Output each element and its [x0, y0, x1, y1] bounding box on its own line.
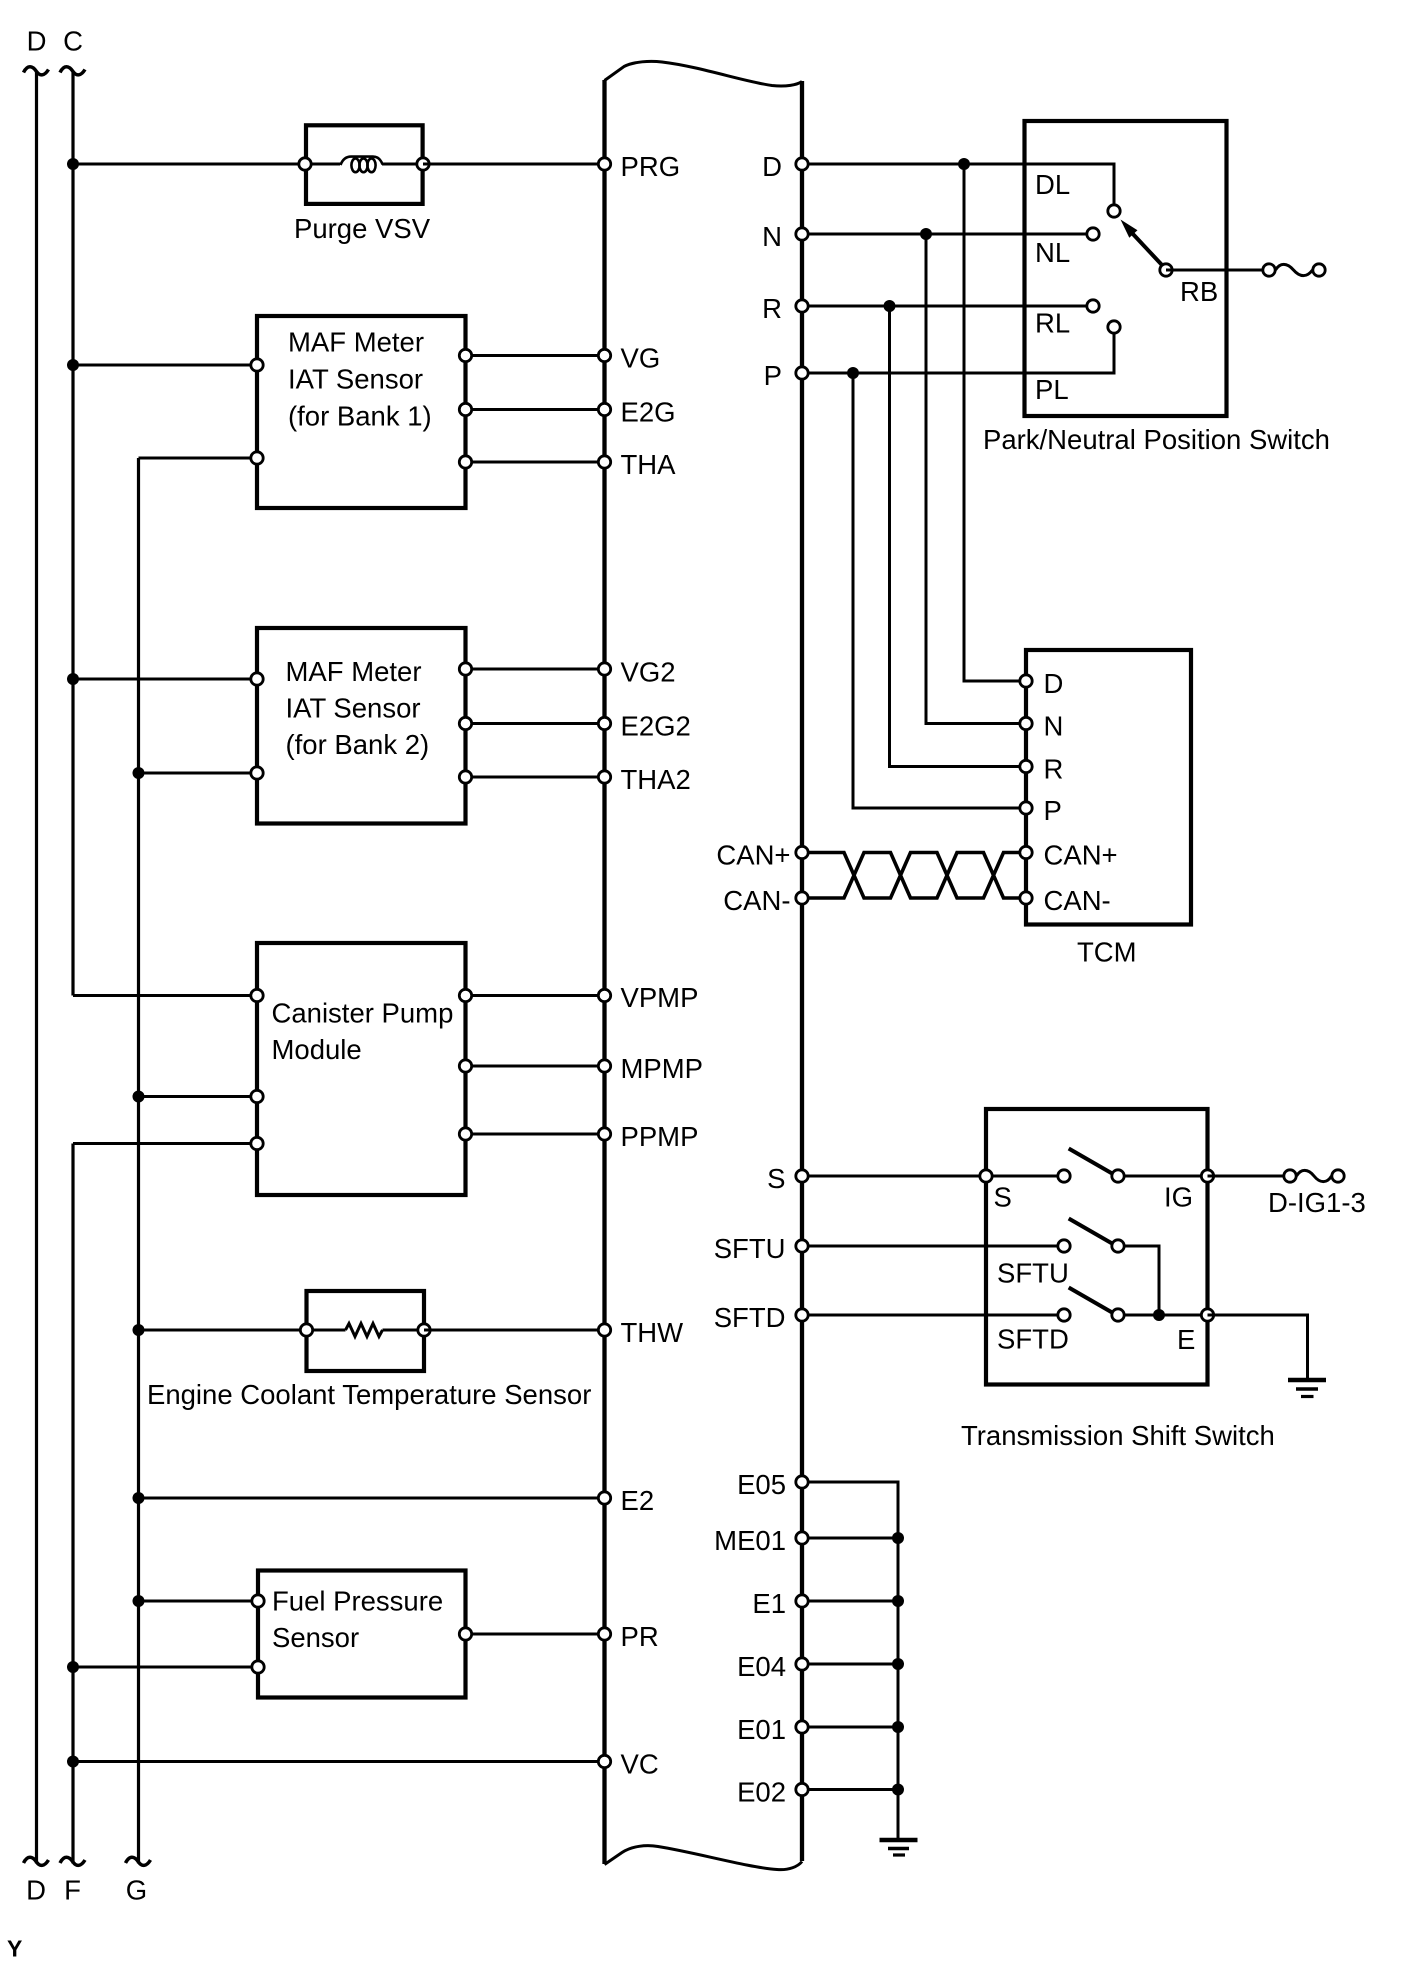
- pin D: [762, 151, 808, 182]
- junction E04: [892, 1658, 904, 1670]
- wire coolant sensor to THW: [424, 1329, 605, 1332]
- TCM pin D: [1020, 668, 1064, 699]
- svg-text:S: S: [767, 1163, 785, 1194]
- TSS SFTD switch contacts and blade: [997, 1288, 1124, 1355]
- connector RB circle-wave-circle: [1263, 264, 1325, 276]
- coolant temperature sensor box: [307, 1291, 425, 1371]
- junction on P wire: [847, 367, 859, 379]
- TCM pin R: [1020, 754, 1064, 785]
- pin N: [762, 221, 808, 252]
- TCM pin P: [1020, 795, 1062, 826]
- pin E1: [752, 1588, 808, 1619]
- wire F to VC: [73, 1760, 605, 1763]
- svg-text:CAN+: CAN+: [716, 840, 790, 871]
- wire N drop to TCM: [926, 234, 1026, 724]
- svg-text:ME01: ME01: [714, 1525, 786, 1556]
- wire G to MAF2: [139, 772, 258, 775]
- MAF meter 1 box: [257, 316, 466, 508]
- MAF1 right terminals: [459, 349, 471, 468]
- junction ME01: [892, 1532, 904, 1544]
- pin R: [762, 293, 808, 324]
- svg-text:Engine Coolant Temperature Sen: Engine Coolant Temperature Sensor: [147, 1379, 591, 1410]
- junction on F at VC wire: [67, 1756, 79, 1768]
- coolant sensor label: [147, 1379, 591, 1410]
- transmission shift switch label: [961, 1420, 1275, 1451]
- svg-text:S: S: [994, 1182, 1012, 1213]
- net F left rail: [60, 1144, 85, 1906]
- svg-text:SFTU: SFTU: [997, 1258, 1069, 1289]
- MAF meter 2 box: [257, 628, 466, 824]
- wire G to coolant sensor: [139, 1329, 307, 1332]
- pin PRG: [598, 151, 680, 182]
- wire IG to connector D-IG1-3: [1208, 1175, 1284, 1178]
- svg-text:Purge VSV: Purge VSV: [294, 213, 431, 244]
- svg-text:Module: Module: [272, 1034, 362, 1065]
- TSS terminal IG: [1164, 1170, 1214, 1213]
- junction on G at E2 wire: [133, 1492, 145, 1504]
- wire MAF2 E2G2: [466, 722, 605, 725]
- wire E02 to ground rail: [802, 1788, 898, 1791]
- svg-text:RL: RL: [1035, 308, 1070, 339]
- svg-text:N: N: [762, 221, 782, 252]
- pin PPMP: [598, 1121, 698, 1152]
- MAF2 right terminals: [459, 663, 471, 783]
- junction on G at canister wire: [133, 1091, 145, 1103]
- wire E04 to ground rail: [802, 1663, 898, 1666]
- svg-text:N: N: [1044, 711, 1064, 742]
- junction SFTU to E: [1153, 1309, 1165, 1321]
- wire E1 to ground rail: [802, 1600, 898, 1603]
- connector D-IG1-3 circle-wave-circle: [1268, 1170, 1366, 1218]
- svg-text:VPMP: VPMP: [621, 982, 699, 1013]
- svg-text:D: D: [27, 26, 47, 57]
- ground at shift switch: [1288, 1380, 1326, 1397]
- node Y page label: [7, 1936, 22, 1961]
- svg-text:PRG: PRG: [621, 151, 681, 182]
- TSS terminal E: [1177, 1309, 1214, 1355]
- pin E04: [737, 1651, 808, 1682]
- wire MAF1 THA: [466, 461, 605, 464]
- svg-text:E2: E2: [621, 1485, 655, 1516]
- FPS right terminal: [459, 1628, 471, 1640]
- junction on C at MAF1 wire: [67, 359, 79, 371]
- junction on G at THW wire: [133, 1324, 145, 1336]
- junction on G at MAF2 wire: [133, 767, 145, 779]
- wire SFTD pin to shift switch: [802, 1314, 986, 1317]
- pin MPMP: [598, 1053, 703, 1084]
- canister right terminals: [459, 989, 471, 1140]
- wire C to MAF2: [73, 678, 257, 681]
- TCM label: [1077, 937, 1137, 968]
- wire MAF1 E2G: [466, 408, 605, 411]
- MAF2 left terminals: [251, 673, 263, 779]
- wire F to fuel pressure sensor: [73, 1666, 258, 1669]
- TSS SFTU switch contacts and blade: [997, 1219, 1124, 1289]
- wire D drop to TCM: [964, 164, 1026, 681]
- junction E02: [892, 1784, 904, 1796]
- svg-text:Fuel Pressure: Fuel Pressure: [272, 1586, 443, 1617]
- wire purge VSV to PRG: [423, 163, 605, 166]
- net G left rail: [126, 458, 151, 1906]
- wire F to canister lower terminal: [73, 1142, 257, 1145]
- pin VG: [598, 343, 660, 374]
- svg-text:E05: E05: [737, 1469, 786, 1500]
- ECM bus torn top edge: [605, 61, 803, 86]
- net C left rail: [60, 26, 85, 996]
- svg-text:E2G2: E2G2: [621, 711, 691, 742]
- PNP PL contact: [1035, 321, 1120, 405]
- svg-text:SFTD: SFTD: [714, 1302, 786, 1333]
- coolant sensor right terminal: [418, 1324, 430, 1336]
- pin ME01: [714, 1525, 808, 1556]
- svg-text:MAF Meter: MAF Meter: [286, 656, 422, 687]
- svg-text:RB: RB: [1180, 276, 1218, 307]
- wire FPS to PR: [466, 1633, 605, 1636]
- purge VSV coil: [311, 157, 417, 173]
- pin E05: [737, 1469, 808, 1500]
- svg-text:VC: VC: [621, 1749, 659, 1780]
- svg-text:PR: PR: [621, 1621, 659, 1652]
- svg-text:E04: E04: [737, 1651, 786, 1682]
- wire N pin to PNP NL contact: [802, 233, 1087, 236]
- wire D pin to PNP DL contact: [802, 164, 1114, 205]
- svg-text:DL: DL: [1035, 169, 1070, 200]
- pin S: [767, 1163, 808, 1194]
- svg-text:PPMP: PPMP: [621, 1121, 699, 1152]
- PNP DL contact: [1035, 169, 1120, 217]
- TSS SFTU row wires: [986, 1246, 1159, 1315]
- svg-text:CAN-: CAN-: [723, 885, 790, 916]
- net D left rail: [24, 26, 49, 1906]
- svg-text:NL: NL: [1035, 237, 1070, 268]
- svg-text:Y: Y: [7, 1936, 22, 1961]
- junction E01: [892, 1721, 904, 1733]
- junction on D wire: [958, 158, 970, 170]
- transmission shift switch box: [986, 1109, 1208, 1385]
- TSS S switch contacts and blade: [1058, 1149, 1124, 1183]
- svg-text:E1: E1: [752, 1588, 786, 1619]
- MAF1 left terminals: [251, 359, 263, 464]
- svg-text:G: G: [126, 1875, 147, 1906]
- pin E2G2: [598, 711, 691, 742]
- junction on F at FPS wire: [67, 1661, 79, 1673]
- svg-text:(for Bank 2): (for Bank 2): [286, 729, 430, 760]
- svg-text:E: E: [1177, 1324, 1195, 1355]
- wire G to canister middle terminal: [139, 1095, 258, 1098]
- junction on R wire: [884, 300, 896, 312]
- pin THA: [598, 449, 676, 480]
- svg-text:Park/Neutral Position Switch: Park/Neutral Position Switch: [983, 424, 1330, 455]
- svg-text:D: D: [26, 1875, 46, 1906]
- svg-text:D: D: [762, 151, 782, 182]
- svg-text:THA2: THA2: [621, 764, 691, 795]
- resistor element THW: [312, 1324, 418, 1337]
- pin CAN-: [723, 885, 808, 916]
- svg-text:MAF Meter: MAF Meter: [288, 327, 424, 358]
- svg-text:(for Bank 1): (for Bank 1): [288, 401, 432, 432]
- wire canister MPMP: [466, 1065, 605, 1068]
- junction on N wire: [920, 228, 932, 240]
- svg-text:IAT Sensor: IAT Sensor: [288, 364, 423, 395]
- svg-text:E01: E01: [737, 1714, 786, 1745]
- svg-text:R: R: [762, 293, 782, 324]
- fuel pressure sensor box: [258, 1571, 466, 1698]
- svg-text:VG: VG: [621, 343, 661, 374]
- svg-text:Sensor: Sensor: [272, 1622, 359, 1653]
- pin E02: [737, 1777, 808, 1808]
- svg-text:R: R: [1044, 754, 1064, 785]
- svg-text:VG2: VG2: [621, 657, 676, 688]
- pin E01: [737, 1714, 808, 1745]
- svg-text:D-IG1-3: D-IG1-3: [1268, 1187, 1366, 1218]
- wire R pin to PNP RL contact: [802, 305, 1087, 308]
- svg-text:MPMP: MPMP: [621, 1053, 704, 1084]
- wire MAF1 to net G: [139, 457, 258, 460]
- junction on C at PRG wire: [67, 158, 79, 170]
- svg-text:IAT Sensor: IAT Sensor: [286, 693, 421, 724]
- purge VSV label: [294, 213, 431, 244]
- wire C to Purge VSV: [73, 163, 305, 166]
- wire MAF2 VG2: [466, 668, 605, 671]
- coolant sensor left terminal: [300, 1324, 312, 1336]
- TCM pin CAN+: [1020, 840, 1118, 871]
- park/neutral position switch box: [1025, 121, 1227, 416]
- PNP RL contact: [1035, 300, 1099, 339]
- svg-text:P: P: [1044, 795, 1062, 826]
- wire E01 to ground rail: [802, 1726, 898, 1729]
- TSS SFTD row wires: [986, 1314, 1208, 1317]
- svg-text:THA: THA: [621, 449, 677, 480]
- pin THA2: [598, 764, 690, 795]
- svg-text:Transmission Shift Switch: Transmission Shift Switch: [961, 1420, 1275, 1451]
- twisted pair CAN wires: [808, 853, 1020, 899]
- park/neutral position switch label: [983, 424, 1330, 455]
- ground at E rail: [880, 1840, 918, 1855]
- wire P pin to PNP PL contact: [802, 333, 1114, 373]
- wire R drop to TCM: [890, 306, 1027, 767]
- svg-text:SFTU: SFTU: [714, 1233, 786, 1264]
- pin VPMP: [598, 982, 698, 1013]
- pin VG2: [598, 657, 675, 688]
- pin VC: [598, 1749, 658, 1780]
- PNP NL contact: [1035, 228, 1099, 268]
- TCM box: [1026, 650, 1191, 925]
- purge VSV left terminal: [299, 158, 311, 170]
- ECM bus torn bottom edge: [605, 1846, 803, 1870]
- svg-text:TCM: TCM: [1077, 937, 1137, 968]
- svg-text:E02: E02: [737, 1777, 786, 1808]
- purge VSV right terminal: [417, 158, 429, 170]
- svg-text:P: P: [764, 360, 782, 391]
- wire P drop to TCM: [853, 373, 1026, 808]
- svg-text:IG: IG: [1164, 1182, 1193, 1213]
- junction on C at MAF2 wire: [67, 673, 79, 685]
- svg-text:CAN+: CAN+: [1044, 840, 1118, 871]
- wire C to MAF1: [73, 364, 257, 367]
- TSS terminal S: [980, 1170, 1012, 1213]
- wire SFTU pin to shift switch: [802, 1245, 986, 1248]
- ECM bus left edge: [602, 80, 606, 1864]
- pin CAN+: [716, 840, 808, 871]
- svg-text:PL: PL: [1035, 374, 1069, 405]
- wire canister VPMP: [466, 994, 605, 997]
- wire MAF1 VG: [466, 354, 605, 357]
- PNP switch arm RB: [1121, 220, 1219, 308]
- pin SFTD: [714, 1302, 809, 1333]
- wire G to fuel pressure sensor: [139, 1600, 259, 1603]
- svg-text:D: D: [1044, 668, 1064, 699]
- svg-text:F: F: [64, 1875, 81, 1906]
- wire G to E2: [139, 1497, 605, 1500]
- wire ME01 to ground rail: [802, 1537, 898, 1540]
- wire C to canister VPMP terminal: [73, 994, 257, 997]
- TSS S row wires: [986, 1175, 1208, 1178]
- junction on G at FPS wire: [133, 1595, 145, 1607]
- wire E to ground: [1208, 1315, 1308, 1380]
- svg-text:C: C: [63, 26, 83, 57]
- wire MAF2 THA2: [466, 776, 605, 779]
- wire S pin to shift switch: [802, 1175, 986, 1178]
- TCM pin CAN-: [1020, 885, 1111, 916]
- pin E2: [598, 1485, 654, 1516]
- FPS left terminals: [252, 1595, 264, 1673]
- svg-text:CAN-: CAN-: [1044, 885, 1111, 916]
- svg-text:SFTD: SFTD: [997, 1324, 1069, 1355]
- wire RB to connector: [1166, 269, 1263, 272]
- TCM pin N: [1020, 711, 1064, 742]
- junction E1: [892, 1595, 904, 1607]
- svg-text:THW: THW: [621, 1317, 684, 1348]
- wire canister PPMP: [466, 1133, 605, 1136]
- canister left terminals: [251, 989, 263, 1149]
- pin PR: [598, 1621, 658, 1652]
- pin P: [764, 360, 809, 391]
- ECM bus right edge: [800, 81, 804, 1861]
- canister pump module box: [257, 943, 466, 1195]
- pin SFTU: [714, 1233, 809, 1264]
- pin THW: [598, 1317, 683, 1348]
- svg-text:Canister Pump: Canister Pump: [272, 998, 454, 1029]
- svg-text:E2G: E2G: [621, 397, 676, 428]
- wire E05 to ground rail: [802, 1482, 898, 1840]
- purge VSV box: [306, 125, 423, 204]
- pin E2G: [598, 397, 675, 428]
